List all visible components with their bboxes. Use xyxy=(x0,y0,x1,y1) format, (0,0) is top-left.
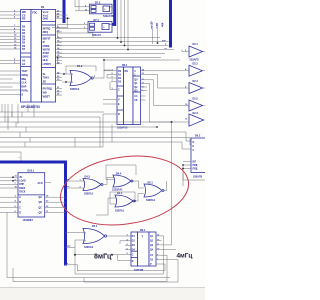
svg-text:533ЛА1: 533ЛА1 xyxy=(84,193,94,196)
svg-text:533АП5: 533АП5 xyxy=(190,59,200,62)
wire bundle FDC right to mesh xyxy=(58,32,175,64)
svg-text:CLK: CLK xyxy=(21,82,26,85)
D5.3 input/output wires xyxy=(62,70,111,82)
svg-text:1533ИЕ7: 1533ИЕ7 xyxy=(23,219,34,222)
bus stub near FDC top right xyxy=(63,0,66,23)
junction dots in mesh xyxy=(156,126,158,128)
wire mesh left middle xyxy=(0,112,190,161)
net labels before bus Б2 xyxy=(162,40,167,50)
rotated net labels near bus Б2 xyxy=(151,21,165,29)
svg-text:ЗЧ: ЗЧ xyxy=(19,177,22,179)
NAND D4.2 xyxy=(115,192,135,207)
svg-text:533ЛА4: 533ЛА4 xyxy=(70,88,80,91)
D5.3 pin numbers xyxy=(72,74,97,84)
svg-text:ВКР: ВКР xyxy=(21,86,26,89)
D9.1 left stubs xyxy=(120,241,131,250)
IC D3 pin numbers xyxy=(14,10,60,95)
svg-text:из: из xyxy=(57,13,59,15)
junctions at D5.3 inputs xyxy=(63,73,67,83)
svg-text:D2.1: D2.1 xyxy=(193,43,199,46)
svg-text:GND: GND xyxy=(43,18,49,21)
svg-text:C: C xyxy=(118,89,120,92)
svg-text:533ЛА4: 533ЛА4 xyxy=(84,246,94,249)
svg-text:IP: IP xyxy=(43,41,46,44)
svg-text:ТН43: ТН43 xyxy=(43,77,50,80)
svg-text:533АГ3В: 533АГ3В xyxy=(103,15,114,18)
IC D9 right edge cut xyxy=(191,134,207,172)
page bottom edge strip xyxy=(0,288,205,300)
junction xyxy=(67,17,69,19)
D6.1 right stubs xyxy=(141,71,146,100)
D4.3 wires xyxy=(75,178,114,189)
svg-text:D10.1: D10.1 xyxy=(28,170,35,173)
wire 4 MHz output xyxy=(162,248,177,250)
svg-text:LOAD: LOAD xyxy=(19,180,26,183)
svg-text:RV/ТВД: RV/ТВД xyxy=(43,88,52,91)
junction on D6.1 input xyxy=(103,59,105,61)
vertical wires below rotated labels xyxy=(153,29,158,44)
svg-text:D2.2: D2.2 xyxy=(193,62,199,65)
D8.1 output wire xyxy=(164,181,167,191)
D6.1 pin numbers xyxy=(112,68,145,92)
svg-text:DRQ: DRQ xyxy=(43,31,49,34)
svg-text:533ЛА1: 533ЛА1 xyxy=(115,209,125,212)
junction feedback xyxy=(74,254,76,256)
one-shot pin numbers xyxy=(84,5,112,29)
D10.1 junctions xyxy=(12,176,14,181)
svg-text:FRBE: FRBE xyxy=(43,45,50,48)
svg-text:QC: QC xyxy=(39,207,43,209)
latch cross wires xyxy=(96,165,144,215)
svg-text:D5.1: D5.1 xyxy=(92,225,98,228)
svg-text:КР1818ВГ93: КР1818ВГ93 xyxy=(21,105,40,109)
D10.1 right wires xyxy=(45,183,66,213)
svg-text:STEP: STEP xyxy=(43,52,50,55)
D10.1 pin numbers xyxy=(15,176,18,213)
IC D3 left pin stubs xyxy=(13,12,21,95)
junctions on bundle xyxy=(57,37,159,58)
one-shot U D7.2 533AG3 xyxy=(90,1,113,13)
QA-QD pin numbers xyxy=(46,195,49,213)
svg-text:РУЛЬ: РУЛЬ xyxy=(21,90,28,93)
svg-text:WDET: WDET xyxy=(43,95,51,98)
wires into ellipse gates from bus xyxy=(66,181,76,188)
svg-text:QD: QD xyxy=(39,212,43,214)
wire from A row down to bottom loop xyxy=(7,212,170,277)
net labels on bus taps xyxy=(67,179,70,188)
svg-text:D9.1: D9.1 xyxy=(140,229,146,232)
svg-text:D2.4: D2.4 xyxy=(193,80,199,83)
driver input pin numbers xyxy=(185,50,188,121)
D9.1 right stubs xyxy=(156,236,162,264)
svg-text:ВВГ6Т: ВВГ6Т xyxy=(43,38,51,41)
svg-text:D2.5: D2.5 xyxy=(193,97,199,100)
svg-text:533АП5: 533АП5 xyxy=(193,175,203,178)
D6.1 left stubs and wires xyxy=(103,60,180,114)
line driver D2.4 xyxy=(189,80,205,94)
svg-text:адр: адр xyxy=(161,22,164,27)
svg-text:зап.ВУ: зап.ВУ xyxy=(151,21,154,29)
thick bus Б3 left xyxy=(0,162,66,266)
line driver D2.3 xyxy=(189,112,205,126)
svg-text:D5.3: D5.3 xyxy=(77,65,83,68)
svg-text:чт: чт xyxy=(165,48,167,50)
wire bundle from left edge to FDC left pins xyxy=(0,12,13,64)
svg-text:ВПР: ВПР xyxy=(19,184,24,186)
svg-text:SL: SL xyxy=(43,73,47,76)
svg-text:4мГц: 4мГц xyxy=(177,252,193,259)
D10.1 left pin labels xyxy=(19,177,26,214)
svg-text:R: R xyxy=(118,113,120,116)
wires D2.3 area to right IC xyxy=(162,122,206,245)
verticals from chip area into mesh xyxy=(2,104,34,130)
feedback rect wire above D5.3 xyxy=(66,66,96,74)
svg-text:533ЛА1: 533ЛА1 xyxy=(146,199,156,202)
D5.1 input wires from bus xyxy=(66,233,84,255)
NAND D4.4 xyxy=(113,172,133,187)
net labels on bus taps xyxy=(67,246,72,266)
junction on 8MHz wire xyxy=(111,254,113,256)
thick bus Б2 top right xyxy=(169,0,172,48)
staircase wires D6.1 outputs to line drivers xyxy=(146,71,190,122)
wire Vcc to bus xyxy=(52,15,70,28)
svg-text:D2.3: D2.3 xyxy=(193,112,199,115)
red highlight ellipse xyxy=(56,148,193,232)
counter feedback loops xyxy=(13,236,178,282)
svg-text:WD: WD xyxy=(43,92,47,95)
svg-text:533АГ3: 533АГ3 xyxy=(92,34,101,37)
svg-text:QB: QB xyxy=(39,202,43,204)
svg-text:чт: чт xyxy=(67,179,69,181)
IC D9.1 counter xyxy=(131,229,156,266)
NAND D8.1 xyxy=(144,181,164,197)
svg-text:чт.ВУ: чт.ВУ xyxy=(156,22,159,29)
svg-text:C: C xyxy=(193,149,195,152)
junctions near right IC xyxy=(182,164,184,169)
svg-text:RE: RE xyxy=(22,18,26,21)
svg-text:D9.2: D9.2 xyxy=(195,134,201,137)
IC D3 left pin labels xyxy=(21,11,28,96)
svg-text:ПРД: ПРД xyxy=(193,168,198,171)
thick data bus Б1 xyxy=(105,0,115,25)
wire 8MHz to counter C xyxy=(75,255,131,261)
IC D3 right pin stubs xyxy=(56,12,62,95)
svg-text:D4.3: D4.3 xyxy=(85,176,91,179)
IC D3 FDC KR1818VG93 outline xyxy=(21,10,56,103)
junction D2.3 input xyxy=(171,121,173,123)
D10.1 right pin labels xyxy=(38,182,43,214)
D6.1 right pin labels xyxy=(134,70,138,102)
one-shot input wires xyxy=(58,0,115,38)
D10.1 left wires xyxy=(0,177,18,212)
svg-text:SD: SD xyxy=(43,80,47,83)
svg-text:ВЫФ: ВЫФ xyxy=(19,187,25,190)
IC D10.1 counter xyxy=(18,170,45,218)
vertical wires from top into mesh xyxy=(118,0,129,50)
NOR gate D5.3 533LA4 xyxy=(70,65,93,85)
IC D6.1 register xyxy=(117,64,141,124)
svg-text:WATB: WATB xyxy=(43,48,50,51)
wire D5.1 output to counter D input xyxy=(107,235,132,237)
bus tap bottom xyxy=(66,265,78,272)
NAND D4.3 xyxy=(83,176,103,191)
svg-text:D: D xyxy=(193,141,195,144)
D9.1 pin numbers xyxy=(127,235,161,262)
svg-text:DIRC: DIRC xyxy=(43,56,49,59)
svg-text:LPRDY: LPRDY xyxy=(43,63,52,66)
D5.1 pin numbers xyxy=(85,232,87,242)
svg-text:QA: QA xyxy=(39,196,43,199)
D9.1 right pin labels xyxy=(150,236,154,266)
D4.3 pin numbers xyxy=(80,179,82,188)
wires D0-D7 from left edge to FDC xyxy=(0,27,13,95)
D6.1 left pin labels xyxy=(118,70,122,116)
one-shot D7.1 533AG3 xyxy=(88,19,112,32)
svg-text:HLD: HLD xyxy=(43,59,48,62)
line driver D2.5 xyxy=(189,97,205,111)
junction latch xyxy=(134,200,136,202)
D9.1 left pin labels xyxy=(132,236,136,263)
svg-text:FDC: FDC xyxy=(32,12,37,15)
svg-text:1533ЛА1: 1533ЛА1 xyxy=(112,188,123,191)
svg-text:ПУСК: ПУСК xyxy=(19,191,26,193)
svg-text:МЩ: МЩ xyxy=(21,78,26,81)
NAND D5.1 xyxy=(83,225,107,244)
svg-text:ТАКТ: ТАКТ xyxy=(21,70,28,73)
svg-text:ACO: ACO xyxy=(38,182,43,185)
IC D3 right pin labels xyxy=(43,11,52,98)
svg-text:з: з xyxy=(19,157,20,159)
svg-text:RG: RG xyxy=(125,70,129,73)
svg-text:ОБЩ: ОБЩ xyxy=(21,74,28,77)
line driver D2.2 xyxy=(189,62,205,76)
line driver D2.1 xyxy=(182,43,205,57)
